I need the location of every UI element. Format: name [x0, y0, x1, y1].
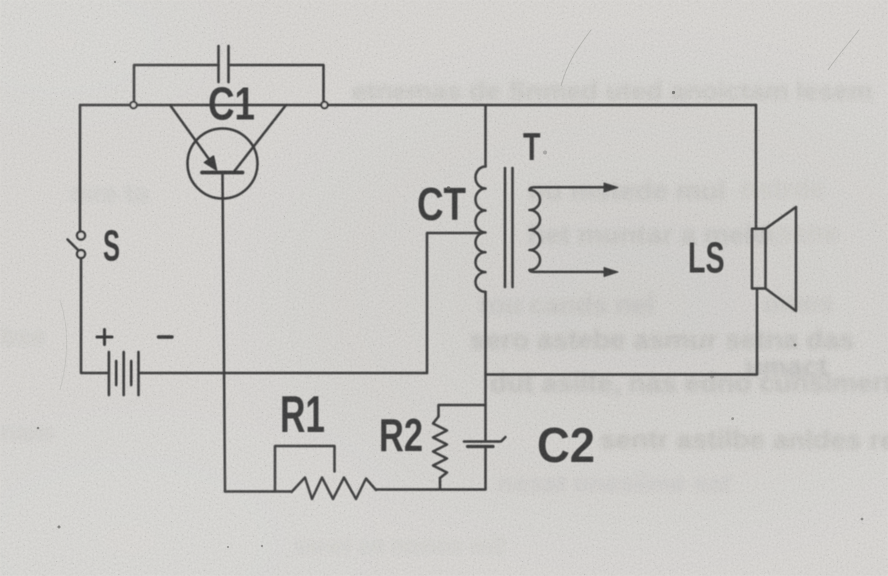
- battery minus sign: [159, 335, 173, 338]
- capacitor C1 feedback loop wires: [134, 65, 324, 101]
- transformer T secondary winding: [530, 190, 541, 270]
- transistor Q1 emitter lead with arrow: [170, 105, 211, 162]
- wire: right rail lower: [756, 289, 759, 375]
- wire: secondary top lead arrow: [530, 187, 607, 190]
- resistor R2 bottom lead: [439, 478, 442, 489]
- node right terminal circle: [321, 102, 327, 108]
- switch S lower contact: [77, 250, 85, 258]
- loudspeaker LS coil body: [752, 229, 766, 289]
- wire: from C2 to bottom corner: [484, 447, 487, 490]
- transistor Q1 base bar: [202, 171, 243, 175]
- transformer T primary winding: [476, 167, 486, 292]
- transformer T primary top lead: [484, 105, 487, 167]
- wire: base lead down to bottom loop: [223, 173, 226, 492]
- schematic ink: [68, 46, 797, 499]
- wire: left rail upper: [79, 105, 82, 231]
- resistor R2 top branch wire: [439, 405, 486, 417]
- transformer T primary bottom lead: [484, 292, 487, 441]
- capacitor C2 bottom plate: [468, 445, 494, 448]
- transformer T core: [505, 168, 513, 287]
- tone washes (decorative): [0, 0, 1, 1]
- switch S blade: [68, 240, 79, 251]
- wire: bottom loop right: [376, 488, 486, 491]
- loudspeaker LS cone: [766, 207, 797, 311]
- wire: center-tap branch: [427, 233, 481, 373]
- wire: top rail: [80, 104, 756, 107]
- capacitor C1 plates: [219, 46, 229, 82]
- transistor Q1 body circle: [188, 129, 258, 199]
- capacitor C2 top plate: [464, 437, 506, 442]
- wire: secondary bottom lead arrow: [530, 270, 607, 272]
- wire: battery rail to CT junction: [140, 372, 427, 375]
- wire: bottom loop left: [225, 490, 292, 493]
- resistor R1 zigzag: [292, 478, 377, 500]
- switch S upper contact: [77, 232, 85, 240]
- wire: left rail lower: [81, 258, 108, 373]
- resistor R2 zigzag: [433, 417, 447, 479]
- node left terminal circle: [130, 102, 136, 108]
- transistor Q1 collector lead: [235, 105, 287, 171]
- wire: lower right rail: [486, 373, 757, 376]
- resistor R1 bypass rectangle: [275, 446, 335, 492]
- wire: right rail upper: [755, 105, 758, 229]
- battery B1 plates: [108, 352, 111, 395]
- battery plus sign: [97, 330, 112, 345]
